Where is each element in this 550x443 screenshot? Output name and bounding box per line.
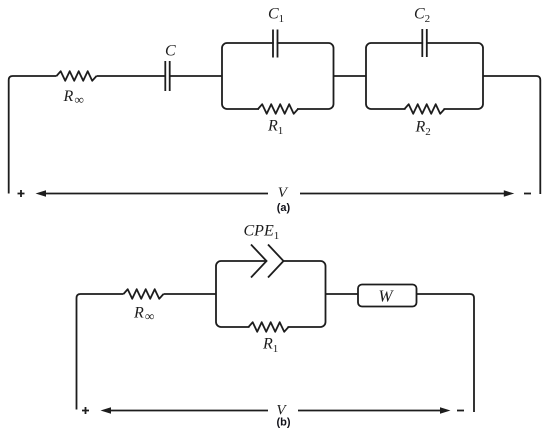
- gap eraser C2: [423, 41, 426, 45]
- parallel block outline (CPE1 R1) (b): [216, 261, 326, 327]
- capacitor C2 plates: [422, 29, 427, 57]
- minus terminal (b): [457, 410, 464, 412]
- gap eraser R1: [259, 106, 297, 112]
- parallel block 2 outline (R2 C2): [366, 43, 483, 109]
- svg-text:V: V: [278, 185, 289, 201]
- wire left side circuit (a): [9, 76, 57, 194]
- wire left side circuit (b): [77, 294, 124, 410]
- capacitor C plates: [165, 61, 169, 91]
- plus terminal (b): [82, 407, 89, 414]
- svg-text:R1: R1: [267, 118, 283, 138]
- voltage arrow left (a): [45, 193, 268, 195]
- wire between C and block 1 (a): [170, 75, 222, 77]
- svg-text:C1: C1: [268, 5, 284, 25]
- svg-text:R2: R2: [415, 119, 431, 139]
- wire between block1 and block2 (a): [334, 75, 367, 77]
- svg-text:(b): (b): [276, 417, 290, 429]
- resistor R1 (b): [249, 322, 289, 332]
- voltage arrow right (b): [298, 410, 440, 412]
- svg-text:W: W: [378, 287, 394, 306]
- svg-text:C: C: [165, 43, 176, 60]
- Warburg element W box: [358, 285, 417, 307]
- wire between block and W (b): [326, 293, 359, 295]
- gap eraser R2: [406, 106, 444, 112]
- resistor R1 (a): [258, 104, 298, 114]
- gap eraser CPE1: [267, 259, 283, 263]
- plus terminal (a): [18, 190, 25, 197]
- minus terminal (a): [524, 193, 531, 195]
- svg-text:R∞: R∞: [133, 305, 154, 324]
- svg-text:C2: C2: [414, 5, 430, 25]
- wire between R_inf and C (a): [97, 75, 166, 77]
- voltage arrow left (b): [111, 410, 269, 412]
- resistor R_inf (a): [57, 71, 97, 81]
- voltage arrow right (a): [300, 193, 504, 195]
- svg-text:R1: R1: [262, 336, 278, 356]
- wire between R_inf and block (b): [164, 293, 217, 295]
- svg-text:R∞: R∞: [63, 88, 84, 107]
- parallel block 1 outline (R1 C1): [222, 43, 334, 109]
- capacitor C1 plates: [273, 30, 278, 58]
- gap eraser R1 (b): [250, 324, 288, 330]
- svg-text:(a): (a): [277, 202, 291, 214]
- wire right side circuit (b): [417, 294, 475, 412]
- CPE element CPE1 chevrons: [251, 245, 267, 278]
- svg-text:CPE1: CPE1: [244, 222, 280, 242]
- resistor R2 (a): [405, 104, 445, 114]
- wire right side circuit (a): [483, 76, 540, 194]
- gap eraser C1: [274, 41, 277, 45]
- resistor R_inf (b): [124, 289, 164, 299]
